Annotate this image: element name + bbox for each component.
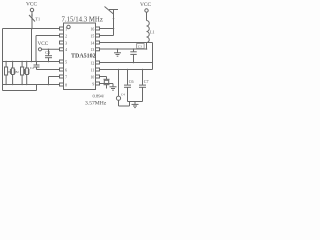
- svg-text:13: 13: [91, 48, 95, 52]
- capacitor C2: [30, 62, 40, 71]
- ground (pin9 net): [110, 84, 117, 91]
- pin 5: [60, 60, 68, 64]
- wire pin5 rail: [3, 61, 60, 63]
- wire node branch: [31, 29, 33, 62]
- svg-text:9: 9: [92, 82, 94, 86]
- wire pin2 net: [36, 36, 60, 62]
- svg-text:VCC: VCC: [26, 1, 37, 7]
- crystal B2: [25, 61, 29, 85]
- svg-text:5: 5: [65, 60, 67, 64]
- wire pin14 net: [100, 43, 153, 70]
- wire pin4 net: [42, 49, 60, 51]
- svg-text:14: 14: [91, 41, 95, 45]
- wire pin8 rail: [3, 84, 60, 86]
- resistor R2: [16, 61, 24, 85]
- svg-text:VCC: VCC: [38, 41, 49, 47]
- pin 2: [60, 34, 68, 38]
- wire pin12 net: [100, 62, 153, 64]
- crystal X1: [104, 79, 110, 88]
- pin 1: [53, 27, 68, 31]
- pin 9: [92, 82, 99, 86]
- wire bottom return: [3, 85, 37, 91]
- wire cap rail: [128, 101, 143, 103]
- power VCC (mid left): [38, 41, 49, 51]
- pin 10: [91, 75, 100, 79]
- pin 15: [91, 34, 100, 38]
- svg-text:10: 10: [91, 75, 95, 79]
- capacitor C6: [124, 70, 133, 102]
- wire pin6 net: [37, 69, 60, 71]
- svg-text:15: 15: [91, 34, 95, 38]
- svg-text:6: 6: [65, 68, 67, 72]
- pin 14: [91, 41, 100, 45]
- svg-text:1: 1: [65, 27, 67, 31]
- pin 8: [60, 83, 68, 87]
- wire pin7 net: [48, 77, 60, 86]
- wire pin9 net: [100, 83, 114, 85]
- wire pin16 net: [100, 28, 115, 30]
- svg-text:2: 2: [65, 34, 67, 38]
- svg-text:C3: C3: [138, 45, 142, 49]
- capacitor C4: [116, 70, 129, 107]
- ground (pin13 net): [114, 49, 121, 56]
- pin 3: [60, 41, 68, 45]
- wire VCC to node: [31, 12, 33, 29]
- pin 6: [60, 68, 68, 72]
- svg-text:4: 4: [65, 48, 67, 52]
- svg-text:0.894/: 0.894/: [93, 94, 105, 99]
- svg-text:7: 7: [65, 75, 67, 79]
- svg-text:T1: T1: [36, 17, 41, 22]
- svg-text:3: 3: [65, 41, 67, 45]
- svg-text:11: 11: [91, 68, 95, 72]
- svg-text:12: 12: [91, 61, 95, 65]
- svg-text:VCC: VCC: [140, 2, 151, 8]
- wire pin1 net: [3, 28, 60, 30]
- inductor L1: [147, 21, 155, 50]
- antenna E1: [105, 7, 119, 36]
- svg-text:C1: C1: [45, 50, 50, 55]
- pin 13: [91, 48, 100, 52]
- resistor R1: [5, 61, 8, 85]
- wire pin10 net: [100, 77, 107, 80]
- pin 4: [60, 48, 68, 52]
- crystal B1: [8, 61, 15, 85]
- pin 16: [91, 27, 100, 31]
- power VCC (top right): [140, 2, 151, 20]
- svg-text:8: 8: [65, 83, 67, 87]
- wire pin13 net: [100, 48, 148, 50]
- svg-text:16: 16: [91, 27, 95, 31]
- pin 12: [91, 61, 100, 65]
- wire pin15 net: [100, 35, 114, 37]
- power VCC (top left): [26, 1, 37, 11]
- svg-text:C7: C7: [144, 79, 149, 84]
- svg-text:3.57MHz: 3.57MHz: [85, 101, 107, 107]
- label 0.894/ 3.57MHz: [85, 94, 107, 107]
- capacitor C3: [130, 44, 144, 64]
- svg-text:L1: L1: [150, 30, 155, 35]
- pin 11: [91, 68, 100, 72]
- svg-text:7.15/14.3 MHz: 7.15/14.3 MHz: [62, 16, 103, 23]
- svg-text:C4: C4: [121, 93, 125, 97]
- IC U1 TDA5102: [64, 23, 96, 90]
- capacitor C7: [139, 70, 148, 102]
- pin 7: [60, 75, 68, 79]
- transistor T1: [29, 14, 40, 21]
- svg-text:TDA5102: TDA5102: [71, 54, 96, 60]
- ground (C6 C7): [132, 102, 139, 108]
- svg-text:C6: C6: [129, 79, 134, 84]
- wire pin11 net: [100, 69, 153, 71]
- wire left bus: [2, 29, 4, 91]
- capacitor C1: [45, 49, 52, 62]
